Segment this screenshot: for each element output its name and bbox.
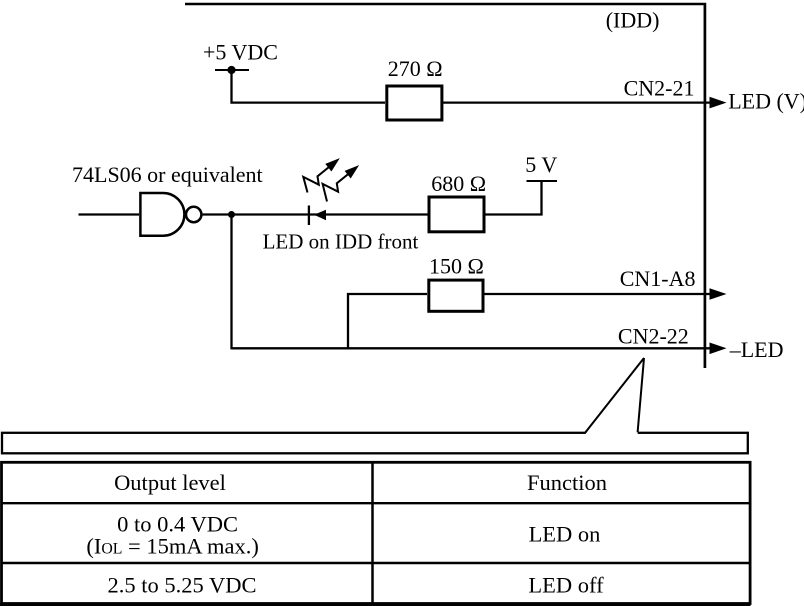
svg-text:150 Ω: 150 Ω [429, 254, 484, 279]
svg-text:+5 VDC: +5 VDC [203, 40, 278, 65]
svg-text:LED on IDD front: LED on IDD front [263, 230, 419, 254]
svg-text:(IDD): (IDD) [606, 8, 660, 33]
svg-text:LED on: LED on [529, 521, 601, 546]
svg-text:2.5 to 5.25 VDC: 2.5 to 5.25 VDC [108, 572, 257, 597]
svg-text:CN2-22: CN2-22 [618, 324, 689, 349]
svg-text:CN1-A8: CN1-A8 [620, 266, 696, 291]
svg-text:74LS06 or equivalent: 74LS06 or equivalent [72, 162, 263, 187]
svg-text:–LED: –LED [729, 337, 784, 362]
svg-text:CN2-21: CN2-21 [624, 76, 695, 101]
svg-text:680 Ω: 680 Ω [431, 171, 486, 196]
svg-text:270 Ω: 270 Ω [388, 56, 443, 81]
svg-text:5 V: 5 V [525, 152, 557, 177]
svg-text:Output level: Output level [114, 470, 226, 495]
svg-text:LED (V): LED (V) [728, 88, 804, 113]
svg-text:Function: Function [527, 470, 607, 495]
svg-text:LED off: LED off [528, 572, 604, 597]
